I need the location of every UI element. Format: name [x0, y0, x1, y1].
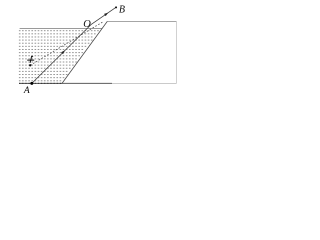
line O to B [91, 7, 116, 24]
top-left plate edge [20, 27, 103, 29]
arrowhead on O-B line [104, 13, 108, 17]
top-right plate edge [107, 20, 176, 22]
bottom edge right light part [112, 82, 177, 84]
point B dot [115, 6, 117, 8]
bottom edge left dark part [19, 82, 62, 84]
point A dot [30, 82, 33, 85]
plus glyph [27, 56, 34, 63]
field dot grid [19, 30, 99, 81]
svg-text:O: O [83, 19, 91, 30]
bottom edge mid part [62, 82, 112, 84]
right slant boundary [62, 21, 107, 83]
arrowhead on A-O line [61, 50, 65, 54]
dashed line from point to corner [30, 22, 103, 65]
field point dot [29, 64, 31, 66]
svg-text:B: B [119, 4, 125, 15]
left slant line A to O [32, 25, 91, 84]
svg-text:A: A [23, 86, 30, 96]
dark dot row on bottom edge [19, 83, 61, 84]
right edge [176, 21, 178, 83]
